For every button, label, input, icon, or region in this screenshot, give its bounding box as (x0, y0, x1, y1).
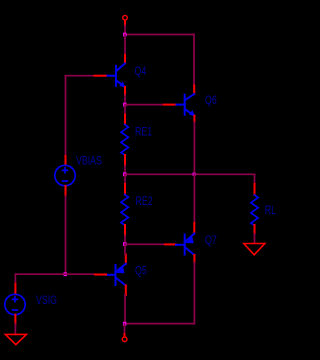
wire VBIAS bottom vertical (65, 196, 67, 274)
wire to bottom terminal (124, 324, 126, 334)
node B junction dot (123, 103, 126, 107)
wire VSIG top horizontal (15, 273, 65, 275)
pin RE2 top red (124, 184, 126, 195)
pin RE2 bottom red (124, 225, 126, 236)
wire RL to ground (254, 234, 256, 244)
resistor RE2 (121, 195, 128, 226)
pin Q7 collector red (193, 255, 195, 263)
pin Q6 base red (164, 104, 177, 106)
pin RL bottom red (254, 225, 256, 234)
wire VSIG top vertical (14, 274, 16, 284)
resistor RE1 (121, 125, 128, 156)
node D junction dot (193, 173, 196, 176)
svg-text:VBIAS: VBIAS (76, 154, 102, 168)
wire RE2 top (124, 174, 126, 184)
pin VSIG minus red (14, 315, 16, 324)
ground RL (244, 244, 265, 255)
pin RL top red (254, 184, 256, 195)
node C junction dot (123, 172, 126, 176)
wire node G to Q5 base (66, 273, 96, 275)
wire top vertical (124, 26, 126, 35)
pin VSIG plus red (14, 284, 16, 294)
wire mid horizontal to RL (125, 173, 255, 175)
svg-text:RE1: RE1 (135, 125, 152, 139)
terminal bottom port (122, 337, 127, 342)
pin RE1 top red (124, 115, 126, 125)
pin Q5 emitter red (125, 255, 127, 265)
wire RL top (254, 174, 256, 184)
wire node E to Q5 emitter (124, 244, 126, 255)
wire RE1 top (124, 105, 126, 115)
wire Q7 emitter from node D (193, 174, 195, 223)
wire right vertical upper (193, 35, 195, 86)
wire VBIAS top vertical (65, 76, 67, 156)
svg-text:RE2: RE2 (136, 195, 153, 209)
transistor Q4 (106, 64, 126, 88)
wire Q7 collector down (193, 263, 195, 324)
source VBIAS (55, 165, 75, 185)
ground VSIG (5, 334, 26, 344)
wire node B to Q6 base (125, 104, 164, 106)
transistor Q5 (106, 264, 126, 286)
node A junction dot (123, 33, 126, 37)
node G junction dot (64, 272, 67, 276)
pin Q6 collector red (193, 86, 195, 95)
wire Q5 collector down (124, 295, 126, 324)
pin RE1 bottom red (124, 155, 126, 166)
svg-text:RL: RL (265, 203, 276, 217)
pin Q4 base red (95, 75, 106, 77)
terminal top port (123, 15, 128, 20)
pin Q5 base red (95, 274, 106, 276)
pin Q6 emitter red (193, 116, 195, 122)
wire VBIAS top horizontal (66, 75, 95, 77)
node F junction dot (123, 322, 126, 326)
pin VBIAS plus red (65, 156, 67, 165)
wire node E to Q7 base (125, 243, 165, 245)
svg-text:Q5: Q5 (135, 264, 147, 278)
pin bottom terminal red (124, 334, 126, 336)
pin Q4 emitter red (124, 87, 126, 95)
svg-text:Q6: Q6 (205, 94, 217, 108)
source VSIG (5, 294, 25, 314)
transistor Q6 (177, 94, 196, 116)
pin VBIAS minus red (65, 186, 67, 196)
svg-text:Q4: Q4 (135, 64, 147, 78)
wire Q4 collector (124, 35, 126, 56)
wire VSIG to ground (14, 324, 16, 334)
pin Q4 collector red (124, 55, 126, 64)
pin Q7 base red (165, 243, 176, 245)
transistor Q7 (176, 234, 194, 256)
svg-text:VSIG: VSIG (36, 294, 57, 308)
wire Q6 emitter down (193, 122, 195, 174)
wire top horizontal (125, 34, 194, 36)
svg-text:Q7: Q7 (205, 234, 217, 248)
pin Q7 emitter red (193, 223, 195, 234)
wire Q4 emitter to node (124, 95, 126, 105)
wire top pin red (124, 21, 126, 26)
wire RE1 bottom to node (124, 166, 126, 175)
wire RE2 bottom to node (124, 236, 126, 245)
node E junction dot (123, 242, 126, 246)
wire bottom horizontal (125, 323, 195, 325)
resistor RL (251, 195, 258, 226)
pin Q5 collector red (125, 286, 127, 296)
